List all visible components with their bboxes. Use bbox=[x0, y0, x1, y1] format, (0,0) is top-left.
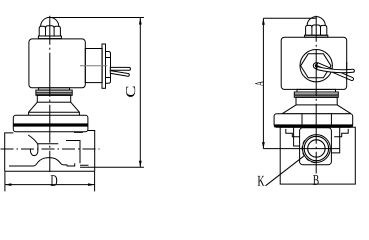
label D bbox=[51, 175, 58, 186]
body ear right bbox=[334, 129, 348, 137]
solenoid coil body (right view) bbox=[281, 37, 347, 89]
K leader line bbox=[266, 156, 304, 186]
body ear left bbox=[286, 129, 300, 137]
hub center dot bbox=[315, 64, 318, 67]
solenoid coil body (left view) bbox=[29, 39, 85, 88]
body interior orifice line bbox=[38, 143, 58, 145]
cable gland bbox=[106, 52, 111, 84]
body interior pilot pocket bbox=[28, 135, 38, 156]
bonnet neck (right view) bbox=[296, 97, 337, 105]
hub outer circle bbox=[300, 49, 332, 81]
bonnet ribbed band (right view) bbox=[294, 92, 338, 97]
label C bbox=[126, 87, 135, 97]
body side plate right bbox=[332, 127, 340, 153]
bonnet flange (right view) bbox=[274, 114, 353, 127]
bonnet step ring (right view) bbox=[297, 89, 336, 92]
cap nut dome (right view) bbox=[307, 17, 325, 26]
wire lead lower (left view) bbox=[110, 71, 129, 77]
bonnet flare trapezoid bbox=[29, 102, 80, 115]
dimension C bottom extension bbox=[88, 166, 144, 168]
dimension D right extension bbox=[94, 172, 96, 192]
dimension C line bbox=[139, 18, 141, 167]
bonnet ribbed band bbox=[36, 90, 72, 95]
valve body (left view) bbox=[5, 131, 95, 172]
dimension C arrow top bbox=[139, 18, 142, 25]
dimension D left extension bbox=[4, 172, 6, 192]
connector end plate bbox=[102, 44, 106, 88]
port inner circle bbox=[308, 140, 325, 157]
connector body bbox=[85, 49, 102, 83]
body side plate left bbox=[294, 127, 300, 146]
cap nut hex facets (left view) bbox=[39, 26, 60, 36]
dimension D arrow right bbox=[88, 183, 95, 186]
port centerline horizontal bbox=[263, 148, 339, 150]
label B bbox=[313, 175, 319, 185]
label K bbox=[258, 176, 265, 186]
body interior seat lines bbox=[80, 165, 89, 167]
centerline vertical (right view) bbox=[315, 16, 317, 174]
centerline horizontal (left view) bbox=[1, 148, 100, 150]
wire lead upper (left view) bbox=[110, 67, 130, 70]
dimension A arrow bottom bbox=[262, 142, 265, 149]
bonnet step ring bbox=[39, 88, 70, 90]
flange hex tick left bbox=[301, 114, 303, 125]
wire lead A (right view) bbox=[317, 63, 354, 81]
body interior shelf right bbox=[66, 141, 80, 164]
cap nut hex facets (right view) bbox=[306, 25, 327, 35]
cap nut washer (right view) bbox=[305, 35, 328, 37]
dimension C arrow bottom bbox=[139, 161, 142, 168]
valve body (right view) bbox=[280, 127, 355, 184]
centerline vertical (left view) bbox=[49, 16, 51, 172]
dimension A arrow top bbox=[262, 18, 265, 25]
dimension D line bbox=[5, 184, 95, 186]
port outer circle bbox=[303, 135, 331, 163]
flange clamp band (thick) bbox=[13, 123, 88, 126]
cap nut washer (left view) bbox=[38, 36, 61, 39]
hub inner circle bbox=[313, 63, 319, 69]
flange hex tick right bbox=[330, 114, 332, 125]
body interior floor left bbox=[9, 165, 33, 167]
connector centerline (gray) bbox=[80, 65, 107, 67]
coil right edge over wires bbox=[346, 62, 348, 80]
hub hex bbox=[301, 54, 331, 78]
bonnet flange (left view) bbox=[13, 115, 88, 132]
wire lead B (right view) bbox=[317, 67, 355, 73]
port middle circle bbox=[304, 136, 328, 160]
body interior mound bbox=[33, 158, 74, 166]
dimension D arrow left bbox=[5, 183, 11, 186]
bonnet neck bbox=[37, 95, 70, 102]
wire: C top extension line bbox=[50, 17, 144, 19]
flange clamp band (right view, thick) bbox=[274, 124, 353, 127]
label A bbox=[255, 81, 263, 86]
dimension A line bbox=[262, 18, 264, 148]
cap nut dome (left view) bbox=[41, 17, 59, 26]
port boss bbox=[300, 128, 332, 165]
port thread arc (dashed) bbox=[302, 140, 315, 162]
bonnet flare trapezoid (right view) bbox=[282, 105, 351, 114]
wire: A top extension line bbox=[263, 17, 316, 19]
